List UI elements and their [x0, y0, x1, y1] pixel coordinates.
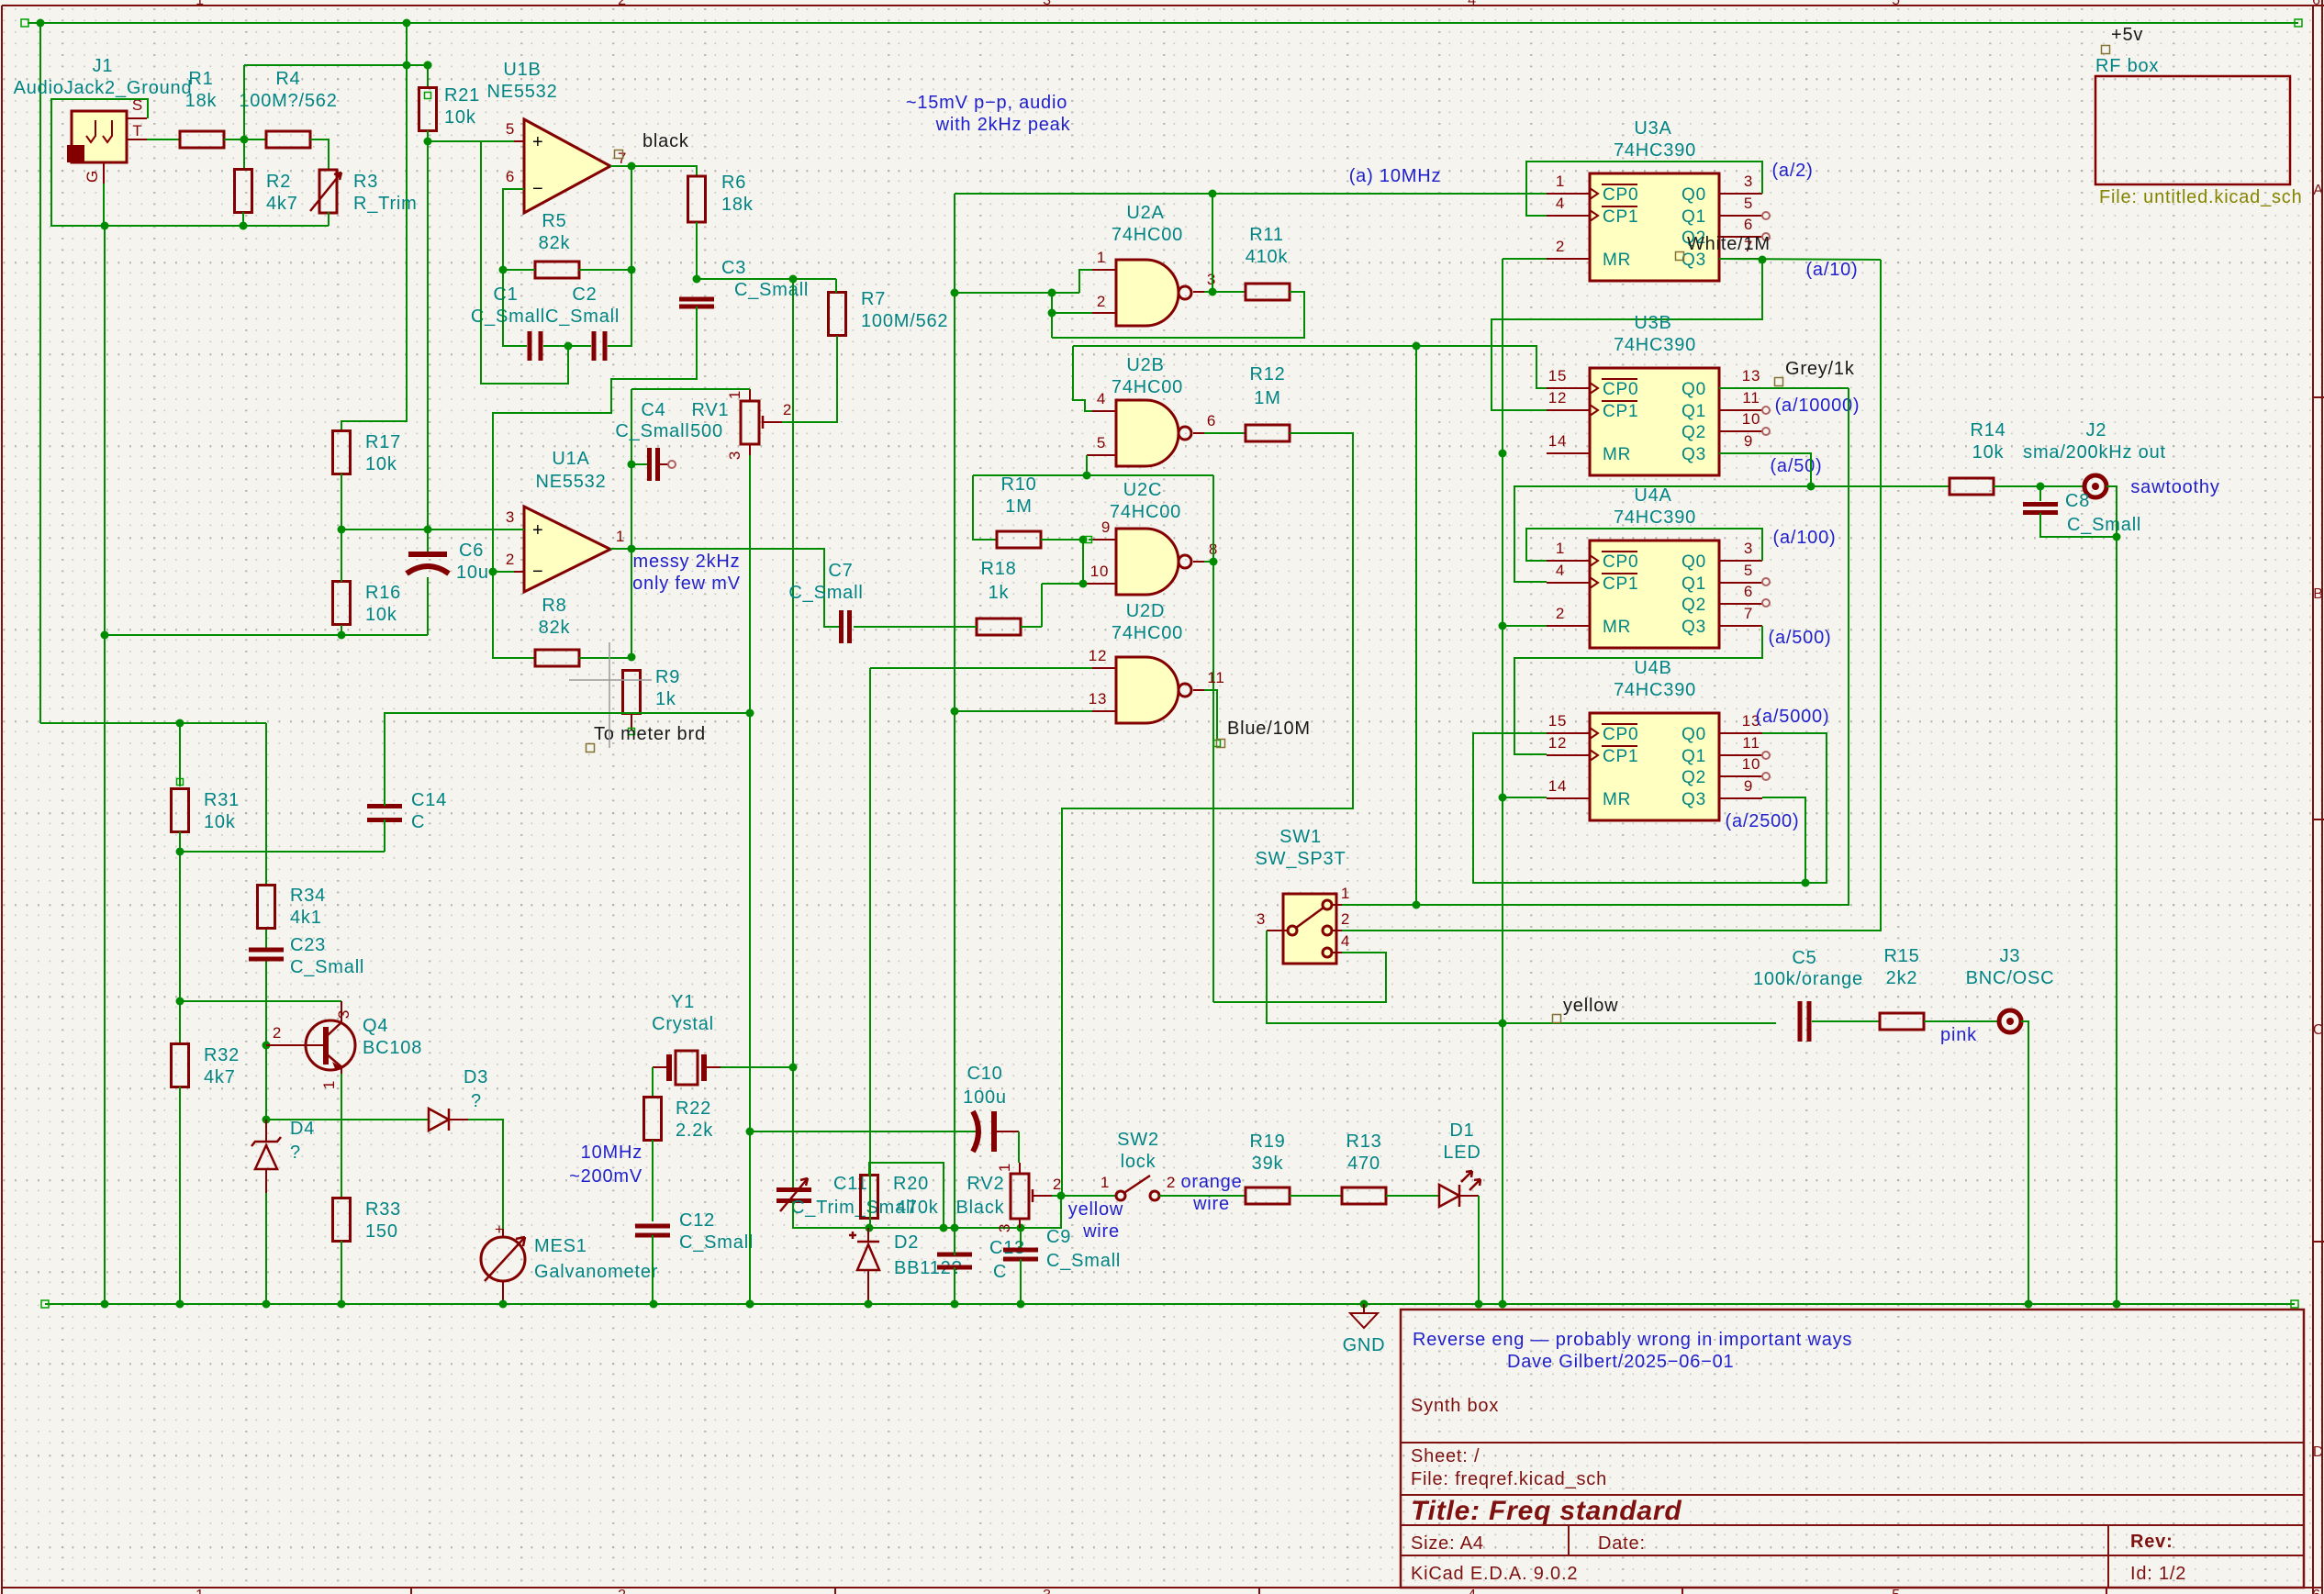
- junction: [1802, 879, 1810, 887]
- wire x1040 long: [954, 194, 955, 1228]
- junction: [1048, 289, 1056, 297]
- svg-text:C_Small: C_Small: [615, 421, 689, 441]
- svg-text:7: 7: [1744, 605, 1753, 622]
- junction: [176, 719, 184, 728]
- svg-text:RV1: RV1: [692, 400, 730, 420]
- junction: [176, 1300, 184, 1309]
- wire x1322: [1212, 475, 1214, 1002]
- wire R22 bottom: [652, 1140, 654, 1221]
- resistor R16: [333, 582, 351, 625]
- svg-text:J3: J3: [2000, 946, 2021, 966]
- svg-text:C10: C10: [966, 1064, 1002, 1084]
- svg-text:pink: pink: [1940, 1025, 1977, 1045]
- svg-text:6: 6: [2312, 1588, 2321, 1594]
- svg-text:G: G: [84, 170, 101, 183]
- svg-text:R4: R4: [275, 69, 300, 89]
- capacitor C2: [592, 331, 608, 361]
- nand gate U2A: [1116, 260, 1191, 326]
- wire R32 bottom: [179, 1087, 181, 1304]
- junction: [1079, 536, 1088, 544]
- svg-text:2k2: 2k2: [1886, 968, 1918, 988]
- svg-text:D: D: [2313, 1444, 2324, 1460]
- U2D pin lines: [1089, 647, 1225, 711]
- svg-text:D2: D2: [894, 1232, 919, 1253]
- wire C4 nc stub: [660, 463, 668, 465]
- wire y788 bus: [40, 722, 266, 724]
- svg-text:R12: R12: [1249, 364, 1285, 385]
- label anchor yellow: [1553, 1015, 1561, 1023]
- wire end markers: [21, 19, 2302, 27]
- svg-text:18k: 18k: [185, 91, 218, 111]
- svg-text:Q0: Q0: [1682, 380, 1706, 399]
- wire D1 down: [1478, 1196, 1480, 1304]
- junction: [263, 1300, 271, 1309]
- svg-text:Y1: Y1: [671, 992, 695, 1012]
- wire C14 bottom: [384, 819, 385, 852]
- resistor R9: [623, 671, 641, 714]
- svg-text:−: −: [532, 562, 543, 582]
- junction: [1057, 1192, 1066, 1200]
- svg-text:C_Small: C_Small: [290, 957, 364, 977]
- svg-text:R33: R33: [365, 1199, 401, 1220]
- junction: [499, 266, 508, 274]
- svg-text:U2C: U2C: [1123, 480, 1162, 500]
- svg-text:C_SmallC_Small: C_SmallC_Small: [471, 307, 620, 327]
- U3B nc pins: [1762, 407, 1770, 414]
- svg-text:yellow: yellow: [1563, 996, 1618, 1016]
- junction: [263, 1116, 271, 1124]
- capacitor C1: [528, 331, 543, 361]
- svg-text:C12: C12: [679, 1210, 715, 1231]
- svg-text:D4: D4: [290, 1119, 315, 1139]
- galvanometer MES1: [481, 1221, 525, 1304]
- wire U4A MR stub: [1503, 625, 1547, 627]
- svg-text:74HC390: 74HC390: [1614, 680, 1696, 700]
- svg-text:R17: R17: [365, 432, 401, 452]
- junction: [746, 1300, 754, 1309]
- svg-text:wire: wire: [1082, 1221, 1120, 1242]
- wire R12 right to wiper net: [1062, 433, 1353, 1196]
- junction: [1017, 1224, 1025, 1232]
- svg-text:Q2: Q2: [1682, 768, 1706, 787]
- svg-text:R22: R22: [676, 1098, 711, 1119]
- wire a50 to U4A: [1514, 486, 1811, 582]
- wire pin13 line: [955, 710, 1092, 712]
- resistor R19: [1246, 1187, 1290, 1204]
- wire R14 to J2: [1994, 485, 2084, 487]
- svg-text:R1: R1: [188, 69, 213, 89]
- wire C3 bottom staircase: [493, 307, 697, 658]
- wire SW2 to R19: [1159, 1195, 1246, 1197]
- svg-text:AudioJack2_Ground: AudioJack2_Ground: [14, 78, 193, 98]
- svg-text:MES1: MES1: [534, 1236, 587, 1256]
- svg-text:C4: C4: [641, 400, 665, 420]
- wire x290 drop1c: [265, 959, 267, 1045]
- svg-text:6: 6: [2312, 0, 2321, 8]
- svg-text:2.2k: 2.2k: [676, 1120, 713, 1141]
- svg-text:C5: C5: [1792, 948, 1816, 968]
- diode D4: [251, 1120, 281, 1193]
- wire U3A loop a2: [1526, 162, 1762, 216]
- wire R8 right: [579, 657, 631, 659]
- LED D1: [1439, 1171, 1480, 1207]
- svg-text:14: 14: [1548, 777, 1568, 795]
- svg-text:Reverse eng — probably wrong i: Reverse eng — probably wrong in importan…: [1413, 1330, 1852, 1350]
- label anchor black: [615, 150, 623, 159]
- svg-text:(a/5000): (a/5000): [1756, 707, 1830, 727]
- svg-text:Black: Black: [956, 1198, 1005, 1218]
- wire R6 bottom: [696, 222, 698, 279]
- svg-text:2: 2: [1167, 1174, 1176, 1191]
- svg-text:Q3: Q3: [1682, 790, 1706, 809]
- wire R31 top: [179, 723, 181, 786]
- wire R5 right lead: [579, 269, 631, 271]
- svg-text:R13: R13: [1346, 1131, 1381, 1152]
- svg-text:Q1: Q1: [1682, 207, 1706, 227]
- junction: [1079, 580, 1088, 588]
- junction: [37, 19, 45, 28]
- svg-text:yellow: yellow: [1068, 1199, 1123, 1220]
- diode D3: [429, 1109, 468, 1131]
- svg-text:Q0: Q0: [1682, 725, 1706, 744]
- svg-text:U2B: U2B: [1126, 355, 1164, 375]
- svg-text:4: 4: [1468, 0, 1477, 8]
- svg-text:MR: MR: [1603, 790, 1631, 809]
- wire J2 down: [2106, 486, 2117, 537]
- junction: [2113, 1300, 2121, 1309]
- wire bus to pin5 staircase: [481, 141, 568, 384]
- svg-text:C_Small: C_Small: [734, 280, 809, 300]
- svg-text:3: 3: [1744, 540, 1753, 557]
- junction: [1807, 483, 1816, 491]
- svg-text:2: 2: [1556, 605, 1565, 622]
- svg-text:410k: 410k: [1246, 247, 1289, 267]
- U4A pin numbers: [1556, 540, 1753, 622]
- wire White net: [1719, 259, 1881, 260]
- svg-text:6: 6: [1744, 216, 1753, 233]
- svg-text:R16: R16: [365, 583, 401, 603]
- svg-text:5: 5: [1744, 195, 1753, 212]
- svg-text:1: 1: [726, 390, 743, 399]
- svg-text:CP1: CP1: [1603, 574, 1638, 594]
- trim pot RV2: [996, 1163, 1062, 1232]
- resistor R17: [333, 431, 351, 474]
- svg-text:5: 5: [1744, 562, 1753, 579]
- wire R3 bottom: [328, 212, 330, 226]
- capacitor C7: [839, 610, 852, 643]
- label anchor blue: [1217, 740, 1225, 748]
- svg-text:1M: 1M: [1005, 496, 1032, 517]
- svg-text:messy 2kHz: messy 2kHz: [633, 552, 741, 572]
- junction: [1209, 190, 1217, 198]
- svg-text:BC108: BC108: [363, 1038, 422, 1058]
- svg-text:+: +: [532, 520, 543, 541]
- svg-text:+: +: [532, 132, 543, 152]
- wire x948: [869, 668, 871, 1228]
- svg-text:CP0: CP0: [1603, 185, 1638, 205]
- wire x2014 Grey drop: [1342, 388, 1849, 905]
- svg-text:U2D: U2D: [1126, 601, 1165, 621]
- rail end markers: [41, 1300, 2298, 1308]
- svg-text:2: 2: [1556, 238, 1565, 255]
- wire U4A Q3: [1514, 626, 1762, 754]
- U3A nc pins: [1762, 212, 1770, 219]
- wire U1B out: [610, 166, 697, 176]
- wire a net: [955, 193, 1547, 195]
- svg-text:4: 4: [1097, 390, 1106, 407]
- capacitor C5: [1798, 1001, 1812, 1042]
- svg-text:C_Small: C_Small: [788, 583, 863, 603]
- wire U3A MR: [1503, 258, 1547, 260]
- svg-text:82k: 82k: [539, 233, 571, 253]
- junction: [1413, 901, 1421, 909]
- wire R2 stub: [243, 65, 245, 170]
- junction: [424, 526, 432, 534]
- svg-text:100M/562: 100M/562: [861, 311, 948, 331]
- svg-text:Q0: Q0: [1682, 552, 1706, 572]
- junction: [1499, 794, 1507, 802]
- wire U2B out: [1204, 432, 1246, 434]
- wire RV1 pin1: [631, 388, 750, 390]
- svg-text:74HC00: 74HC00: [1112, 623, 1183, 643]
- svg-text:Synth box: Synth box: [1411, 1396, 1499, 1416]
- svg-text:12: 12: [1548, 389, 1568, 407]
- wire R11 loop: [1052, 292, 1304, 338]
- wire end marker R21: [425, 93, 431, 99]
- switch SW2: [1116, 1176, 1159, 1200]
- svg-text:CP1: CP1: [1603, 402, 1638, 421]
- junction: [101, 222, 109, 230]
- svg-text:74HC00: 74HC00: [1112, 225, 1183, 245]
- svg-text:150: 150: [365, 1221, 398, 1242]
- svg-text:CP0: CP0: [1603, 552, 1638, 572]
- connector J2 coax: [2084, 475, 2106, 497]
- junction: [424, 61, 432, 70]
- junction: [865, 1300, 873, 1309]
- svg-text:2: 2: [506, 551, 515, 568]
- wire R17 bottom: [341, 474, 342, 529]
- svg-text:Date:: Date:: [1598, 1533, 1646, 1554]
- U2B pin lines: [1087, 390, 1216, 455]
- wire x1135: [1041, 584, 1043, 627]
- junction: [263, 1042, 271, 1050]
- svg-text:2: 2: [1097, 293, 1106, 310]
- U4A nc pins: [1762, 578, 1770, 585]
- U4B pin numbers: [1548, 712, 1761, 795]
- IC U4B 74HC390: [1547, 713, 1762, 820]
- svg-text:1k: 1k: [989, 583, 1010, 603]
- wire y928: [180, 851, 385, 853]
- U3A pin numbers: [1556, 173, 1753, 255]
- svg-text:Title: Freq standard: Title: Freq standard: [1411, 1496, 1682, 1526]
- junction: [240, 136, 249, 144]
- resistor R22: [644, 1098, 662, 1141]
- wire U2A pin1 jog: [1079, 270, 1092, 293]
- svg-text:?: ?: [290, 1143, 301, 1163]
- capacitor C3: [679, 297, 714, 309]
- svg-text:4: 4: [1556, 195, 1565, 212]
- svg-text:74HC00: 74HC00: [1112, 377, 1183, 397]
- wire C8 top: [2039, 486, 2041, 501]
- svg-text:black: black: [642, 131, 689, 151]
- wire top bus y71: [244, 65, 428, 88]
- svg-text:R6: R6: [721, 173, 746, 193]
- junction: [789, 275, 798, 284]
- svg-text:3: 3: [996, 1223, 1013, 1232]
- wire R18 right: [1021, 626, 1042, 628]
- svg-text:CP0: CP0: [1603, 725, 1638, 744]
- svg-text:9: 9: [1744, 432, 1753, 450]
- svg-text:A: A: [2313, 183, 2323, 198]
- svg-text:74HC390: 74HC390: [1614, 335, 1696, 355]
- wire Q4 emitter: [341, 1074, 342, 1198]
- svg-text:11: 11: [1742, 389, 1760, 407]
- capacitor C23: [249, 948, 284, 962]
- label anchor 5v: [2102, 46, 2110, 54]
- wire U2C out: [1204, 561, 1213, 563]
- resistor R32: [172, 1044, 189, 1087]
- svg-text:C6: C6: [459, 541, 484, 561]
- svg-text:14: 14: [1548, 432, 1568, 450]
- wire y304: [697, 278, 836, 280]
- svg-text:Sheet: /: Sheet: /: [1411, 1446, 1480, 1466]
- wire x688 fb drop: [631, 166, 632, 346]
- wire R19-R13: [1290, 1195, 1342, 1197]
- svg-text:2: 2: [1341, 910, 1350, 928]
- svg-text:LED: LED: [1443, 1143, 1480, 1163]
- svg-text:100M?/562: 100M?/562: [239, 91, 337, 111]
- junction: [101, 1300, 109, 1309]
- svg-text:KiCad E.D.A. 9.0.2: KiCad E.D.A. 9.0.2: [1411, 1564, 1578, 1584]
- wire C1 left: [503, 270, 527, 346]
- resistor R11: [1246, 284, 1290, 300]
- svg-text:CP0: CP0: [1603, 380, 1638, 399]
- wire R2 bottom: [242, 212, 244, 226]
- resistor R6: [688, 176, 706, 222]
- svg-text:470k: 470k: [896, 1198, 939, 1218]
- wire pin5 stub: [1086, 455, 1088, 475]
- wire R21 bottom to pin5: [428, 130, 524, 141]
- junction: [176, 848, 184, 856]
- junction: [940, 1224, 948, 1232]
- junction: [176, 998, 184, 1006]
- wire C8 bottom: [2040, 513, 2117, 537]
- resistor R21: [419, 88, 437, 131]
- junction: [489, 568, 497, 576]
- svg-text:13: 13: [1742, 367, 1761, 385]
- svg-text:10k: 10k: [365, 605, 397, 625]
- op-amp U1A: [506, 507, 625, 592]
- wire R10 right: [1041, 539, 1083, 541]
- svg-text:CP1: CP1: [1603, 747, 1638, 766]
- svg-text:10k: 10k: [1972, 442, 2005, 463]
- svg-text:R_Trim: R_Trim: [353, 194, 418, 214]
- wire U2A in: [955, 292, 1079, 294]
- wire C6 bottom: [427, 577, 429, 635]
- svg-text:(a/100): (a/100): [1773, 528, 1837, 548]
- wire C9 top: [1020, 1228, 1022, 1248]
- svg-text:R20: R20: [893, 1174, 929, 1194]
- wire +5v top rail: [28, 22, 2298, 24]
- svg-text:Q2: Q2: [1682, 596, 1706, 615]
- svg-text:U1A: U1A: [552, 449, 589, 469]
- svg-text:orange: orange: [1180, 1172, 1242, 1192]
- junction: [746, 1300, 754, 1309]
- wire pin12 line: [870, 667, 1092, 669]
- svg-text:wire: wire: [1192, 1194, 1230, 1214]
- svg-text:3: 3: [506, 508, 515, 526]
- svg-text:R2: R2: [266, 172, 291, 192]
- wire +5v left drop: [39, 23, 41, 723]
- svg-text:39k: 39k: [1252, 1154, 1284, 1174]
- svg-text:C_Small: C_Small: [2067, 515, 2141, 535]
- svg-text:C: C: [993, 1262, 1007, 1282]
- resistor R10: [997, 531, 1041, 548]
- svg-text:6: 6: [1207, 412, 1216, 429]
- svg-text:4k1: 4k1: [290, 908, 322, 928]
- cursor crosshair: [569, 642, 652, 748]
- junction: [693, 275, 701, 284]
- svg-text:with 2kHz peak: with 2kHz peak: [935, 115, 1071, 135]
- junction: [338, 1300, 346, 1309]
- svg-text:5: 5: [1892, 0, 1901, 8]
- junction: [499, 1300, 508, 1309]
- U2C pin lines: [1083, 518, 1218, 584]
- ground symbol GND: [1350, 1304, 1378, 1328]
- svg-text:1: 1: [1556, 173, 1565, 190]
- svg-text:CP1: CP1: [1603, 207, 1638, 227]
- svg-text:Crystal: Crystal: [652, 1014, 714, 1034]
- svg-text:2: 2: [1053, 1176, 1062, 1193]
- border row letters: [2313, 183, 2324, 1460]
- junction: [1499, 450, 1507, 458]
- wire x817 long RV1 pin3 net: [749, 455, 751, 1304]
- nand gate U2C: [1116, 529, 1191, 595]
- svg-text:1: 1: [196, 0, 205, 8]
- svg-text:?: ?: [471, 1091, 482, 1111]
- svg-text:1: 1: [320, 1080, 338, 1089]
- svg-text:GND: GND: [1343, 1335, 1386, 1355]
- wire x1321: [1212, 194, 1213, 292]
- svg-text:T: T: [132, 122, 142, 139]
- junction: [338, 526, 346, 534]
- IC U3B 74HC390: [1547, 368, 1762, 475]
- wire x290 drop: [265, 723, 267, 886]
- svg-text:(a/500): (a/500): [1769, 628, 1832, 648]
- wire J3 down: [2021, 1021, 2028, 1304]
- wire R16 top: [341, 529, 342, 582]
- svg-text:C_Small: C_Small: [1046, 1251, 1121, 1271]
- svg-text:5: 5: [1097, 434, 1106, 451]
- junction: [628, 461, 636, 469]
- resistor R4: [266, 131, 310, 148]
- resistor R31: [172, 789, 189, 832]
- resistor R13: [1342, 1187, 1386, 1204]
- wire y518: [973, 474, 1213, 476]
- wire C5 to R15: [1812, 1020, 1880, 1022]
- wire C13 bottom: [954, 1267, 955, 1304]
- wire R31 bottom: [179, 831, 181, 852]
- junction: [101, 631, 109, 640]
- wire R17 body leads: [341, 429, 342, 431]
- wire U4B MR stub: [1503, 797, 1547, 798]
- wire RV2 wiper: [1052, 1195, 1061, 1197]
- wire y1338 bus: [793, 1196, 1061, 1228]
- svg-text:2: 2: [618, 0, 627, 8]
- wire C9 bottom: [1020, 1259, 1022, 1304]
- svg-text:3: 3: [1043, 0, 1052, 8]
- svg-text:Q1: Q1: [1682, 747, 1706, 766]
